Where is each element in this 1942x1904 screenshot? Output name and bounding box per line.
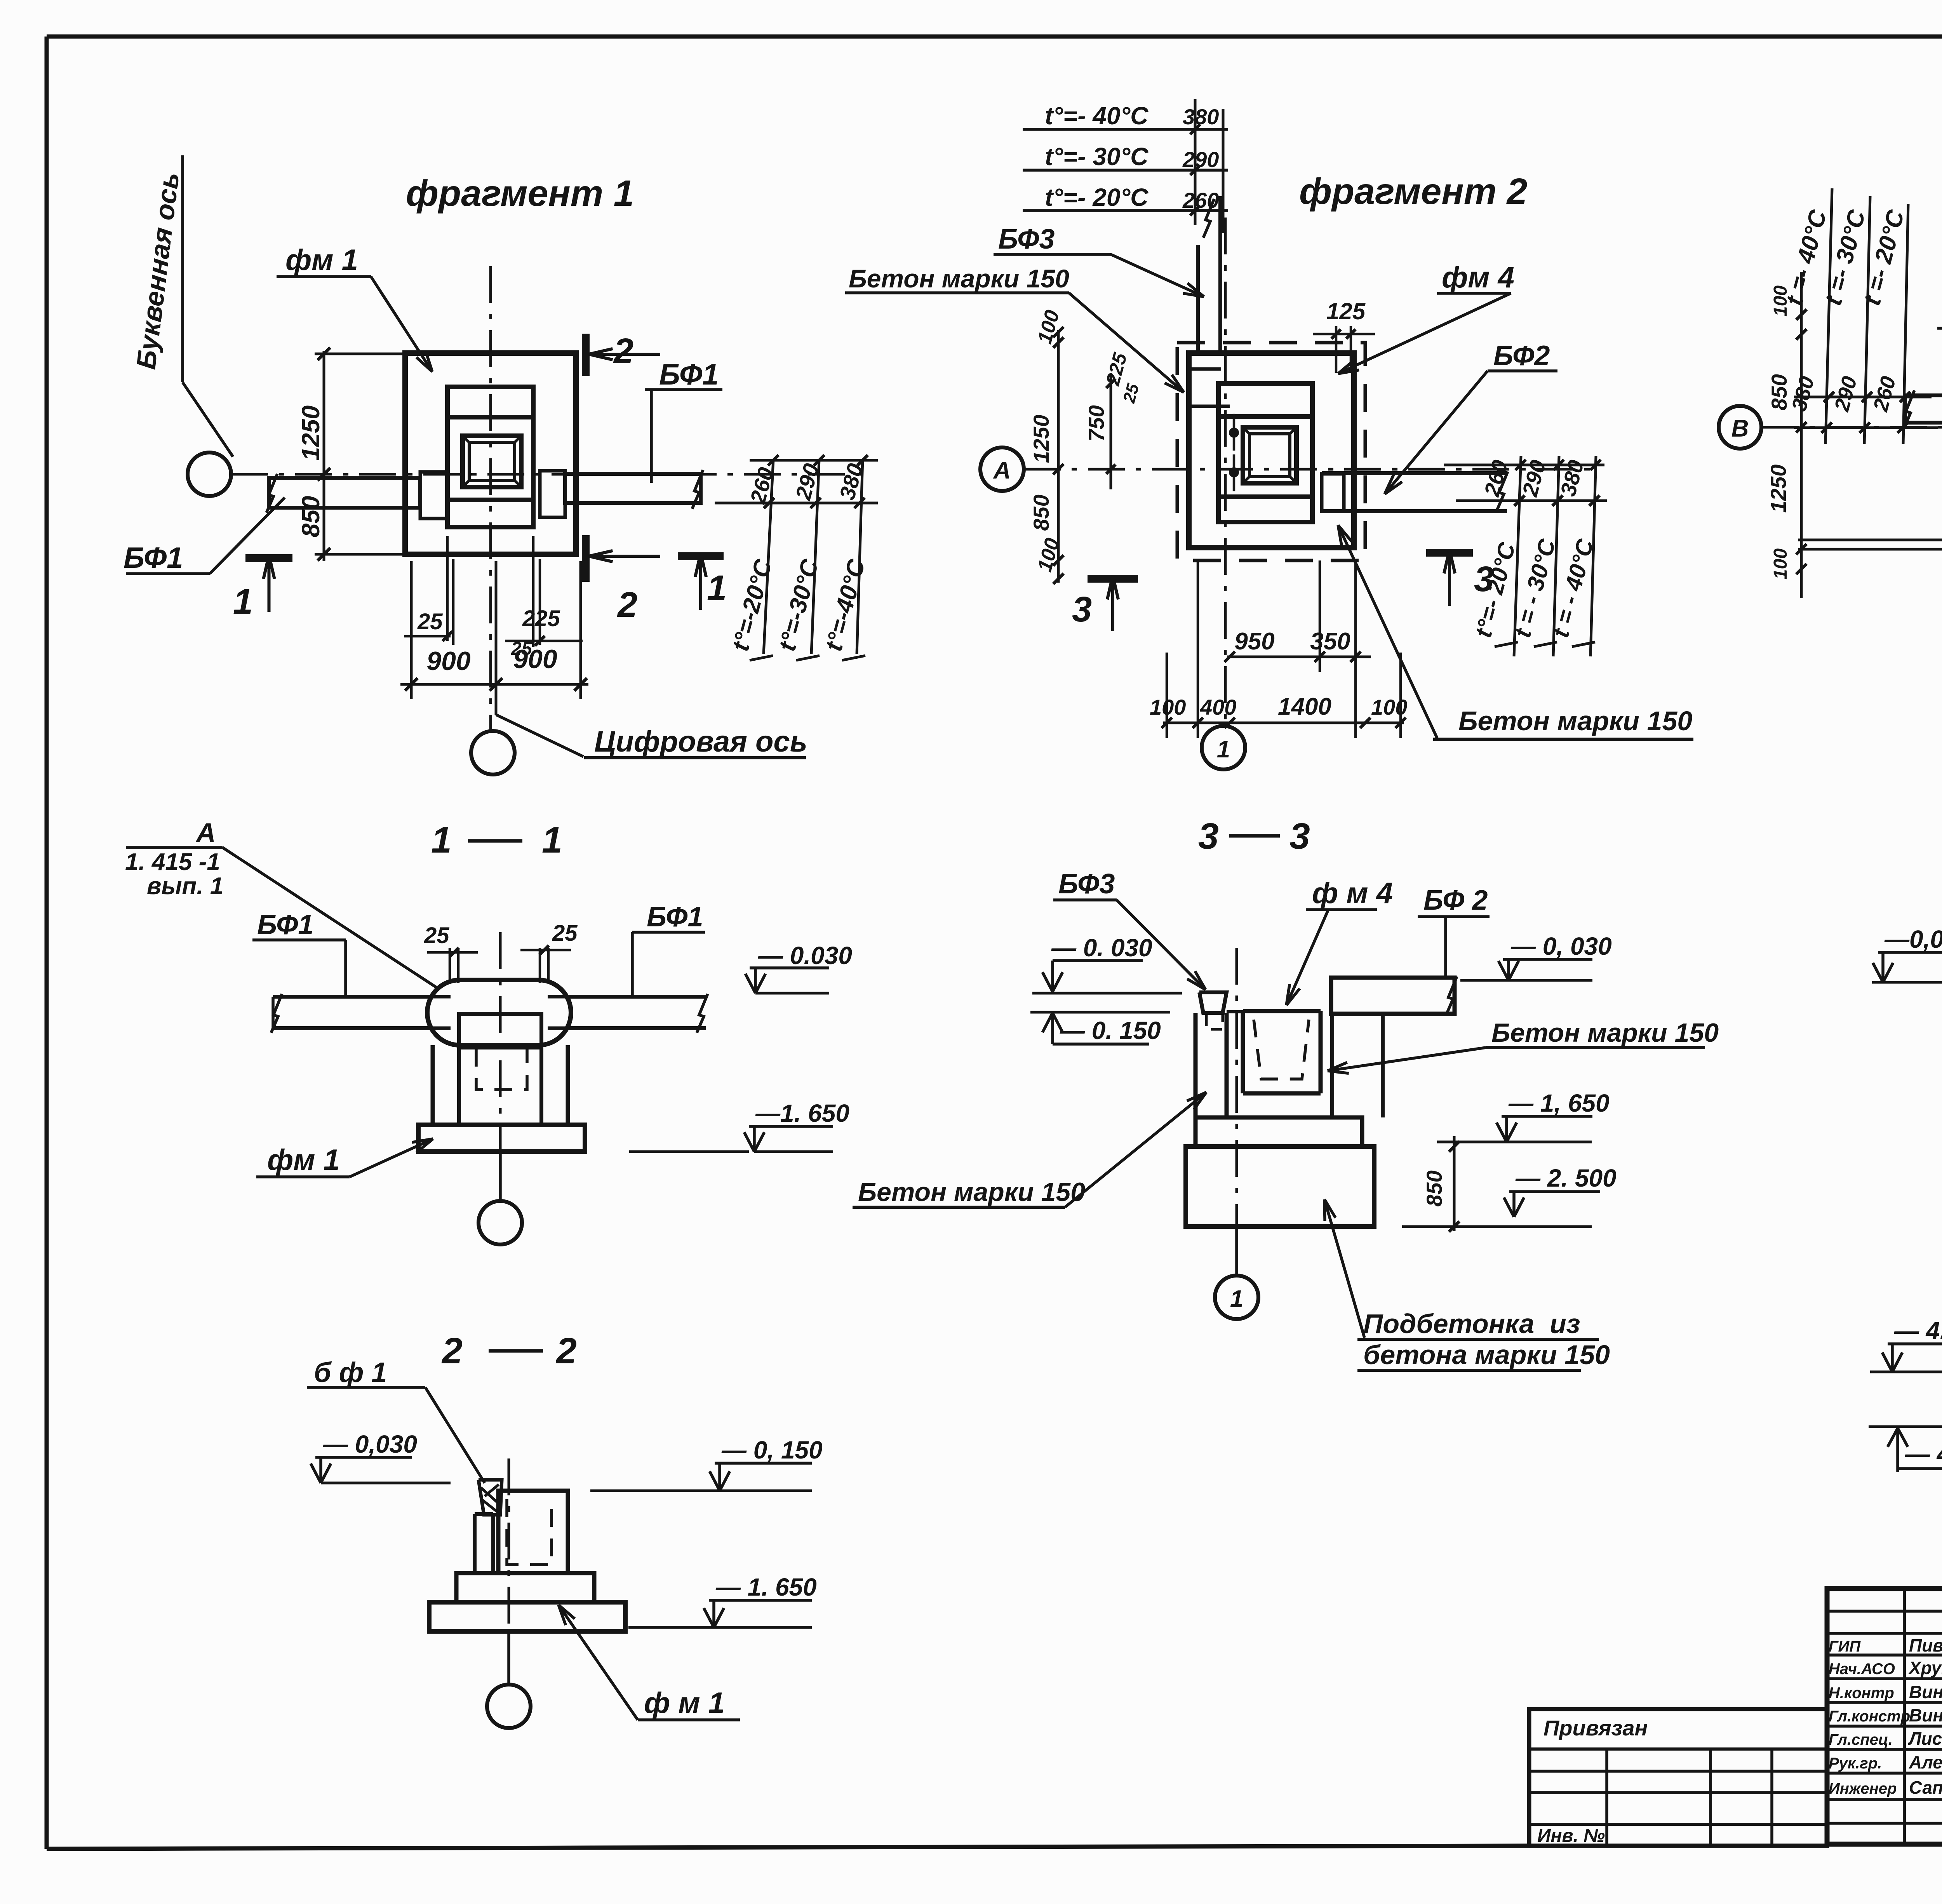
svg-text:ф м 1: ф м 1	[644, 1686, 725, 1720]
svg-text:Пивторак: Пивторак	[1909, 1635, 1942, 1655]
temperature lines fragment 3 left	[1825, 188, 1832, 444]
beam БФ1 right (plan)	[565, 474, 701, 503]
svg-text:1: 1	[707, 568, 727, 608]
svg-text:2: 2	[555, 1330, 577, 1371]
axis circle 1 section 3-3	[1215, 1276, 1258, 1319]
svg-text:950: 950	[1234, 628, 1274, 655]
axis circle А fragment 2	[980, 447, 1024, 491]
slab section 2-2	[429, 1602, 625, 1631]
svg-text:Привязан: Привязан	[1544, 1716, 1648, 1740]
svg-text:Бетон марки 150: Бетон марки 150	[849, 264, 1069, 293]
beam left end hook	[420, 472, 447, 519]
step section 3-3	[1195, 1117, 1362, 1147]
svg-text:— 0,030: — 0,030	[323, 1430, 417, 1458]
cup фм4 section 3-3	[1241, 1011, 1245, 1093]
title block signature table	[1827, 1589, 1942, 1844]
column glass dashed section 1-1	[476, 1049, 527, 1089]
svg-text:— 0, 030: — 0, 030	[1510, 932, 1612, 960]
svg-text:БФ 2: БФ 2	[1423, 885, 1488, 916]
svg-text:1: 1	[431, 820, 452, 861]
section mark 1 left	[245, 554, 292, 562]
left wall section 3-3	[1194, 1013, 1198, 1117]
svg-text:—0,030: —0,030	[1884, 925, 1942, 953]
svg-text:БФ1: БФ1	[257, 909, 313, 940]
cup glass dashed section 3-3	[1254, 1020, 1309, 1079]
svg-text:1250: 1250	[1766, 465, 1791, 513]
svg-text:БФ1: БФ1	[647, 902, 703, 933]
svg-text:3: 3	[1072, 590, 1092, 629]
svg-text:1: 1	[542, 820, 562, 861]
svg-text:фрагмент 2: фрагмент 2	[1299, 171, 1527, 212]
svg-text:2: 2	[617, 585, 637, 625]
beam right section 1-1	[568, 995, 706, 999]
beam БФ2 right section 3-3	[1331, 978, 1455, 1014]
svg-text:25: 25	[424, 923, 449, 948]
left dimension column fragment 3	[1800, 272, 1803, 598]
column cup beveled square fragment 1	[463, 436, 521, 487]
dimension 900/900 bottom	[400, 683, 588, 686]
svg-text:ГИП: ГИП	[1829, 1638, 1861, 1655]
svg-text:Сапрошина: Сапрошина	[1909, 1777, 1942, 1798]
svg-text:100: 100	[1770, 548, 1791, 580]
dimension 25/225 small (fragment 1)	[446, 536, 449, 641]
svg-text:фм 1: фм 1	[285, 244, 358, 277]
fragment 2 inner foundation	[1218, 383, 1312, 522]
corner step of БФ3 entry	[1189, 369, 1230, 406]
svg-text:1. 415 -1: 1. 415 -1	[125, 849, 220, 875]
left dimension column fragment 2	[1057, 330, 1060, 583]
axis circle В fragment 3	[1719, 406, 1761, 449]
svg-text:Бетон марки 150: Бетон марки 150	[1458, 706, 1692, 736]
svg-text:350: 350	[1310, 628, 1350, 655]
svg-text:Гл.спец.: Гл.спец.	[1829, 1731, 1893, 1748]
beam right end hook	[540, 471, 565, 517]
svg-text:БФ3: БФ3	[1058, 868, 1115, 900]
svg-text:— 2. 500: — 2. 500	[1515, 1164, 1617, 1192]
svg-text:— 0, 150: — 0, 150	[721, 1436, 823, 1464]
svg-text:Винклер: Винклер	[1909, 1705, 1942, 1725]
svg-text:— 4. 780: — 4. 780	[1905, 1440, 1942, 1468]
svg-text:БФ3: БФ3	[998, 224, 1055, 255]
svg-text:t°=- 20°C: t°=- 20°C	[1045, 183, 1148, 211]
section mark 3 left	[1088, 575, 1138, 583]
column section 2-2	[473, 1514, 477, 1573]
attachment table (Привязан)	[1529, 1709, 1827, 1846]
svg-text:2: 2	[613, 331, 633, 371]
foundation фм4 outer square (plan)	[1189, 353, 1354, 548]
svg-text:750: 750	[1084, 405, 1108, 441]
footing фм1 section 1-1	[418, 1125, 585, 1152]
horizontal axis fragment 3	[1762, 426, 1942, 429]
label Бетон марки 150 bottom (fragment 2)	[1338, 525, 1437, 738]
beam БФ2 left (plan fragment 3)	[1905, 395, 1942, 423]
svg-text:Цифровая ось: Цифровая ось	[594, 725, 807, 758]
numeric axis label (Цифровая ось)	[496, 715, 583, 757]
svg-text:Бетон марки 150: Бетон марки 150	[858, 1177, 1085, 1207]
svg-text:850: 850	[1422, 1170, 1446, 1206]
foundation фм1 inner step	[447, 387, 533, 527]
svg-text:БФ1: БФ1	[124, 541, 183, 574]
vertical axis section 1-1	[499, 932, 502, 1150]
svg-text:Н.контр: Н.контр	[1829, 1685, 1894, 1702]
anchor bolts fragment 2	[1229, 428, 1239, 438]
dim 850 section 3-3	[1453, 1136, 1456, 1231]
right wall section 3-3	[1330, 1014, 1334, 1117]
svg-text:Лисичкин: Лисичкин	[1908, 1728, 1942, 1749]
svg-text:— 1. 650: — 1. 650	[715, 1573, 817, 1601]
svg-text:3: 3	[1198, 816, 1219, 857]
svg-text:t°=- 30°C: t°=- 30°C	[1045, 143, 1148, 171]
column glass dashed section 2-2	[507, 1499, 552, 1565]
svg-text:— 0. 150: — 0. 150	[1060, 1016, 1161, 1044]
svg-text:— 4. 350: — 4. 350	[1894, 1317, 1942, 1345]
svg-text:1250: 1250	[297, 406, 325, 461]
svg-text:400: 400	[1200, 695, 1236, 719]
temperature table fragment 2 top-left	[1023, 128, 1228, 131]
svg-text:1: 1	[1217, 736, 1230, 763]
horizontal axis fragment 2	[1024, 468, 1592, 471]
section mark 3 right	[1426, 549, 1473, 557]
svg-text:Хрупало: Хрупало	[1908, 1658, 1942, 1678]
section mark 1 right	[678, 552, 724, 560]
svg-text:225: 225	[522, 606, 560, 631]
svg-text:1400: 1400	[1278, 693, 1331, 720]
svg-text:25: 25	[511, 639, 532, 659]
podbetonka block section 3-3	[1186, 1147, 1374, 1227]
vertical axis section 3-3	[1236, 948, 1238, 1225]
svg-text:б ф 1: б ф 1	[314, 1357, 387, 1388]
beam БФ1 left (plan)	[269, 478, 420, 508]
svg-text:850: 850	[297, 496, 325, 538]
vertical axis line fragment 1	[489, 266, 492, 729]
joint oval section 1-1	[427, 980, 571, 1045]
numeric axis circle fragment 1	[471, 731, 515, 774]
column body section 1-1	[431, 1045, 435, 1125]
svg-text:290: 290	[1182, 147, 1219, 172]
beam end hatched section 2-2	[479, 1480, 502, 1515]
beam БФ2 right (plan, fragment 2)	[1322, 471, 1507, 475]
horizontal axis line fragment 1	[231, 473, 866, 476]
svg-text:Подбетонка: Подбетонка	[1363, 1309, 1534, 1339]
svg-text:бетона марки 150: бетона марки 150	[1363, 1340, 1610, 1370]
svg-text:100: 100	[1371, 695, 1407, 719]
svg-text:фм 4: фм 4	[1442, 261, 1514, 294]
dashed pit outline fragment 2	[1177, 343, 1365, 560]
svg-text:850: 850	[1029, 494, 1053, 531]
beam БФ3 end (trapezoid) section 3-3	[1199, 992, 1227, 1013]
temperature dims fragment 2 right	[1444, 464, 1604, 466]
svg-text:2: 2	[441, 1330, 463, 1371]
svg-text:фм 1: фм 1	[267, 1143, 340, 1177]
wall pocket dashed section 3-3	[1206, 1015, 1223, 1029]
svg-text:— 1, 650: — 1, 650	[1508, 1089, 1610, 1117]
svg-text:—1. 650: —1. 650	[755, 1099, 849, 1127]
svg-text:1250: 1250	[1029, 415, 1053, 463]
axis circle section 2-2	[487, 1685, 531, 1728]
svg-text:3: 3	[1289, 816, 1310, 857]
svg-text:Инв. №: Инв. №	[1537, 1826, 1605, 1846]
svg-text:В: В	[1731, 415, 1749, 442]
svg-text:25: 25	[417, 609, 443, 634]
svg-text:Нач.АСО: Нач.АСО	[1829, 1660, 1895, 1678]
svg-text:25: 25	[552, 921, 578, 946]
axis circle section 1-1	[479, 1201, 522, 1244]
svg-text:Винклер: Винклер	[1909, 1682, 1942, 1702]
svg-text:ф м 4: ф м 4	[1312, 877, 1393, 910]
svg-text:из: из	[1550, 1309, 1580, 1339]
beam left section 1-1	[273, 995, 430, 999]
svg-text:БФ1: БФ1	[659, 358, 719, 391]
svg-text:БФ2: БФ2	[1493, 340, 1550, 371]
svg-text:фрагмент 1: фрагмент 1	[406, 173, 634, 214]
svg-text:1: 1	[233, 582, 253, 621]
column head section 1-1	[459, 1014, 541, 1048]
section mark 2 top	[582, 334, 590, 376]
elevation -0.150 left section 3-3	[1030, 1011, 1170, 1014]
svg-text:125: 125	[1326, 298, 1366, 324]
section mark 2 bottom	[582, 535, 590, 582]
svg-text:t°=- 40°C: t°=- 40°C	[1045, 102, 1148, 130]
svg-text:— 0. 030: — 0. 030	[1051, 934, 1152, 962]
svg-text:А: А	[993, 457, 1011, 484]
vertical axis fragment 2	[1224, 218, 1227, 726]
cut line 4-4 through fragment 3	[1798, 539, 1942, 541]
foundation фм1 outer square (plan)	[405, 353, 576, 554]
bottom dims fragment 2	[1227, 656, 1371, 658]
svg-text:900: 900	[426, 646, 471, 676]
step section 2-2	[456, 1573, 594, 1602]
svg-text:100: 100	[1770, 285, 1791, 317]
svg-text:вып. 1: вып. 1	[147, 873, 223, 900]
svg-text:Инженер: Инженер	[1829, 1780, 1897, 1797]
temperature joint dims fragment 1 right	[750, 459, 878, 462]
dimension 1250/850 vertical	[323, 351, 325, 561]
svg-text:Бетон марки 150: Бетон марки 150	[1491, 1018, 1719, 1048]
svg-text:850: 850	[1767, 374, 1791, 410]
svg-text:Алехова: Алехова	[1909, 1752, 1942, 1772]
letter axis leader line	[181, 155, 184, 382]
vertical axis section 2-2	[508, 1458, 510, 1631]
svg-text:1: 1	[1230, 1286, 1243, 1312]
svg-text:Рук.гр.: Рук.гр.	[1829, 1755, 1882, 1772]
column cup beveled square fragment 2	[1243, 427, 1296, 483]
svg-text:Гл.констр: Гл.констр	[1829, 1708, 1910, 1725]
axis circle letter (fragment 1)	[188, 453, 231, 496]
beam БФ3 vertical (plan)	[1196, 245, 1200, 355]
svg-text:— 0.030: — 0.030	[758, 942, 852, 969]
elevation -4.780 section 4-4	[1869, 1425, 1942, 1428]
svg-text:А: А	[195, 818, 216, 848]
axis circle 1 fragment 2	[1202, 726, 1245, 769]
